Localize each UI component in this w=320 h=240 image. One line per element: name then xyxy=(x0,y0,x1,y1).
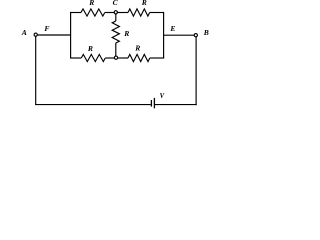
wire node C down to middle resistor xyxy=(115,14,117,21)
svg-text:E: E xyxy=(169,24,175,33)
svg-text:V: V xyxy=(160,93,165,100)
svg-text:R: R xyxy=(134,44,140,53)
resistor R bottom-left xyxy=(81,54,105,61)
wire top-left resistor to node C xyxy=(105,12,114,14)
resistor R middle vertical xyxy=(112,21,119,43)
svg-text:R: R xyxy=(141,0,147,7)
resistor R bottom-right xyxy=(128,54,150,61)
wire A to network left xyxy=(38,34,71,36)
wire top branch left lead xyxy=(70,12,81,14)
svg-text:A: A xyxy=(21,28,27,37)
wire middle resistor to bottom junction xyxy=(115,43,117,56)
wire bottom-left resistor to junction xyxy=(105,57,114,59)
battery V long plate xyxy=(153,98,155,108)
svg-text:R: R xyxy=(88,0,94,7)
wire node C to top-right resistor xyxy=(118,12,129,14)
wire top-right resistor to corner xyxy=(150,12,164,14)
svg-text:R: R xyxy=(87,44,93,53)
wire bottom-right resistor to corner xyxy=(150,57,164,59)
svg-text:R: R xyxy=(123,29,129,38)
wire bottom right segment xyxy=(155,104,197,106)
node B terminal circle xyxy=(194,34,197,37)
wire bottom left segment xyxy=(35,104,151,106)
svg-text:C: C xyxy=(113,0,119,7)
wire junction to bottom-right resistor xyxy=(118,57,128,59)
wire network left vertical xyxy=(70,13,72,59)
node A terminal circle xyxy=(34,33,37,36)
resistor R top-right xyxy=(128,9,150,16)
node D bottom junction circle xyxy=(114,56,117,59)
wire B down right side of loop xyxy=(195,37,197,105)
wire network right vertical xyxy=(163,12,165,58)
resistor R top-left xyxy=(81,9,105,16)
battery V short plate xyxy=(150,100,152,107)
wire E rail to node B xyxy=(163,34,194,36)
wire bottom branch left lead xyxy=(70,57,81,59)
svg-text:B: B xyxy=(203,28,209,37)
wire A down left side of loop xyxy=(35,37,37,105)
node C junction circle xyxy=(114,11,117,14)
svg-text:F: F xyxy=(44,24,49,33)
